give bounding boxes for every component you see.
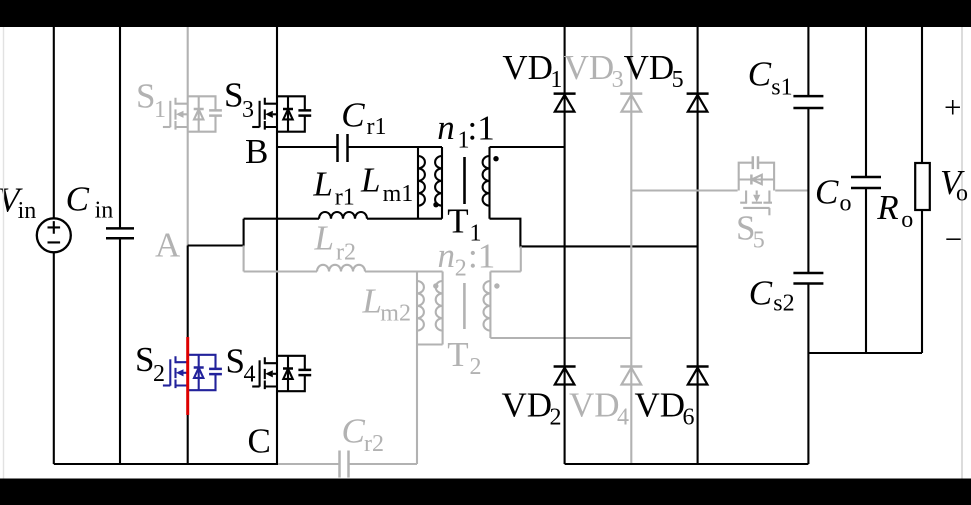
svg-text:C: C: [748, 54, 772, 93]
svg-text:r2: r2: [364, 431, 384, 457]
wire: T2 bottom rail: [417, 343, 443, 345]
svg-text:1: 1: [550, 67, 562, 93]
diode VD4: [620, 367, 642, 385]
node A: step to resonant rail (black): [188, 219, 244, 246]
svg-text:C: C: [66, 179, 90, 218]
svg-text:C: C: [342, 412, 366, 451]
svg-text:4: 4: [244, 362, 256, 388]
svg-text:C: C: [248, 422, 271, 461]
svg-text:5: 5: [672, 67, 684, 93]
wire: VD5/VD6 leg: [697, 27, 699, 464]
wire: T1 secondary bottom to VD5/VD6: [490, 219, 698, 247]
svg-text:VD: VD: [502, 48, 553, 87]
svg-text:+: +: [944, 90, 961, 125]
svg-text:s1: s1: [771, 75, 792, 101]
inductor Lm1: [418, 147, 425, 219]
svg-text:A: A: [155, 226, 181, 265]
capacitor Cs1: [793, 96, 823, 108]
svg-text::1: :1: [468, 237, 495, 276]
diode VD3: [620, 94, 642, 112]
wire: VD1/VD2 leg: [564, 27, 566, 464]
wire: Cin leg: [119, 27, 121, 464]
svg-text:VD: VD: [569, 386, 620, 425]
wire: Cs1/Cs2 leg: [807, 27, 809, 464]
label n2:1: [438, 236, 496, 281]
diode VD2: [554, 367, 576, 385]
wire: output bottom link: [808, 352, 922, 354]
wire: Lr2 to T2 top rail: [365, 270, 443, 272]
wire: rectifier bottom bus: [565, 463, 809, 465]
svg-text:VD: VD: [564, 48, 615, 87]
inductor Lm2: [417, 272, 424, 465]
transistor S1: [163, 96, 222, 131]
wire: bottom bus (input side): [54, 463, 278, 465]
svg-text:o: o: [901, 207, 913, 233]
diode VD5: [687, 94, 709, 112]
svg-text:L: L: [360, 160, 380, 199]
svg-text:r2: r2: [336, 240, 356, 266]
faint figure border left: [3, 27, 5, 479]
wire: A-rail to Lr2 (grey): [244, 270, 317, 272]
transformer T2 core: [463, 283, 466, 329]
faint figure border right: [961, 27, 963, 479]
svg-text:in: in: [95, 197, 114, 223]
wire: C to Cr2 (grey bottom): [278, 463, 339, 465]
inductor Lr1: [319, 212, 367, 219]
svg-text:2: 2: [550, 405, 562, 431]
svg-text:−: −: [945, 222, 962, 257]
svg-text:S: S: [224, 76, 243, 115]
inductor Lr2: [317, 265, 365, 272]
svg-text:2: 2: [470, 354, 482, 380]
wire: VD3 node to S5 (grey): [631, 189, 737, 191]
svg-text:L: L: [314, 218, 334, 257]
wire highlight (red) on S2 leg: [186, 337, 189, 415]
wire: A-rail to Lr1: [244, 218, 319, 220]
wire: Ro leg: [921, 27, 923, 353]
transistor S5 (grey, rotated): [739, 156, 774, 215]
wire: Cr2 to T2 return: [349, 463, 417, 465]
svg-text:R: R: [876, 188, 898, 227]
svg-text::1: :1: [468, 109, 495, 148]
wire: Co leg: [865, 27, 867, 353]
wire: B to Cr1: [277, 146, 337, 148]
svg-text:4: 4: [617, 405, 629, 431]
svg-text:5: 5: [753, 228, 765, 254]
svg-text:C: C: [749, 273, 773, 312]
svg-text:S: S: [136, 77, 155, 116]
transistor S2 (blue): [163, 355, 222, 390]
voltage source Vin: [37, 218, 71, 252]
svg-text:o: o: [956, 181, 968, 207]
svg-text:C: C: [815, 173, 839, 212]
wire: VD3/VD4 leg (grey): [630, 27, 632, 464]
svg-text:r1: r1: [335, 185, 355, 211]
wire: Vin leg: [53, 27, 55, 464]
svg-text:3: 3: [242, 97, 254, 123]
svg-text:1: 1: [154, 97, 166, 123]
transformer T2 secondary: [484, 272, 500, 339]
svg-text:B: B: [245, 132, 268, 171]
wire: S3/S4 leg: [276, 27, 278, 464]
svg-text:r1: r1: [367, 114, 387, 140]
svg-text:in: in: [18, 198, 37, 224]
diode VD1: [554, 94, 576, 112]
svg-text:S: S: [226, 342, 245, 381]
transistor S3: [252, 96, 311, 131]
svg-text:2: 2: [455, 255, 467, 281]
svg-text:o: o: [840, 191, 852, 217]
svg-text:n: n: [437, 108, 455, 147]
diode VD6: [687, 367, 709, 385]
svg-text:L: L: [362, 281, 382, 320]
transformer T1 secondary: [483, 147, 499, 219]
svg-text:m2: m2: [380, 300, 411, 326]
wire: S1/S2 leg lower: [187, 246, 189, 465]
capacitor Cs2: [793, 273, 823, 284]
svg-text:VD: VD: [502, 386, 553, 425]
label n1:1: [437, 108, 494, 154]
wire: Lr1 to T1 bottom rail: [367, 218, 442, 220]
svg-text:6: 6: [683, 405, 695, 431]
capacitor Cr2: [340, 451, 349, 478]
svg-text:3: 3: [612, 67, 624, 93]
svg-text:T: T: [447, 202, 468, 241]
resistor Ro: [915, 163, 930, 210]
svg-text:L: L: [312, 165, 332, 204]
node A: step to channel-2 rail (grey): [243, 246, 245, 272]
svg-text:T: T: [447, 335, 468, 374]
capacitor Cr1: [338, 134, 348, 162]
capacitor Cin: [106, 228, 134, 238]
wire: S1/S2 leg upper (grey): [187, 27, 189, 246]
svg-text:s2: s2: [773, 291, 794, 317]
svg-text:S: S: [135, 340, 154, 379]
svg-text:VD: VD: [624, 48, 675, 87]
wire: T1 secondary top to VD1: [490, 146, 565, 148]
capacitor Co: [851, 177, 881, 188]
svg-text:n: n: [438, 236, 456, 275]
transformer T2 primary: [433, 272, 443, 345]
wire: Cr1 to T1 top rail: [348, 146, 442, 148]
wire: S5 to Cs leg (grey): [775, 189, 808, 191]
wire: T2 secondary top link: [490, 246, 520, 271]
wire: T2 secondary bottom to VD3/VD4: [490, 337, 631, 339]
transformer T1 primary: [433, 147, 442, 219]
svg-text:m1: m1: [383, 181, 414, 207]
svg-text:C: C: [341, 96, 365, 135]
transistor S4: [252, 356, 311, 391]
transformer T1 core: [463, 157, 466, 204]
svg-text:VD: VD: [635, 386, 686, 425]
svg-text:2: 2: [153, 361, 165, 387]
